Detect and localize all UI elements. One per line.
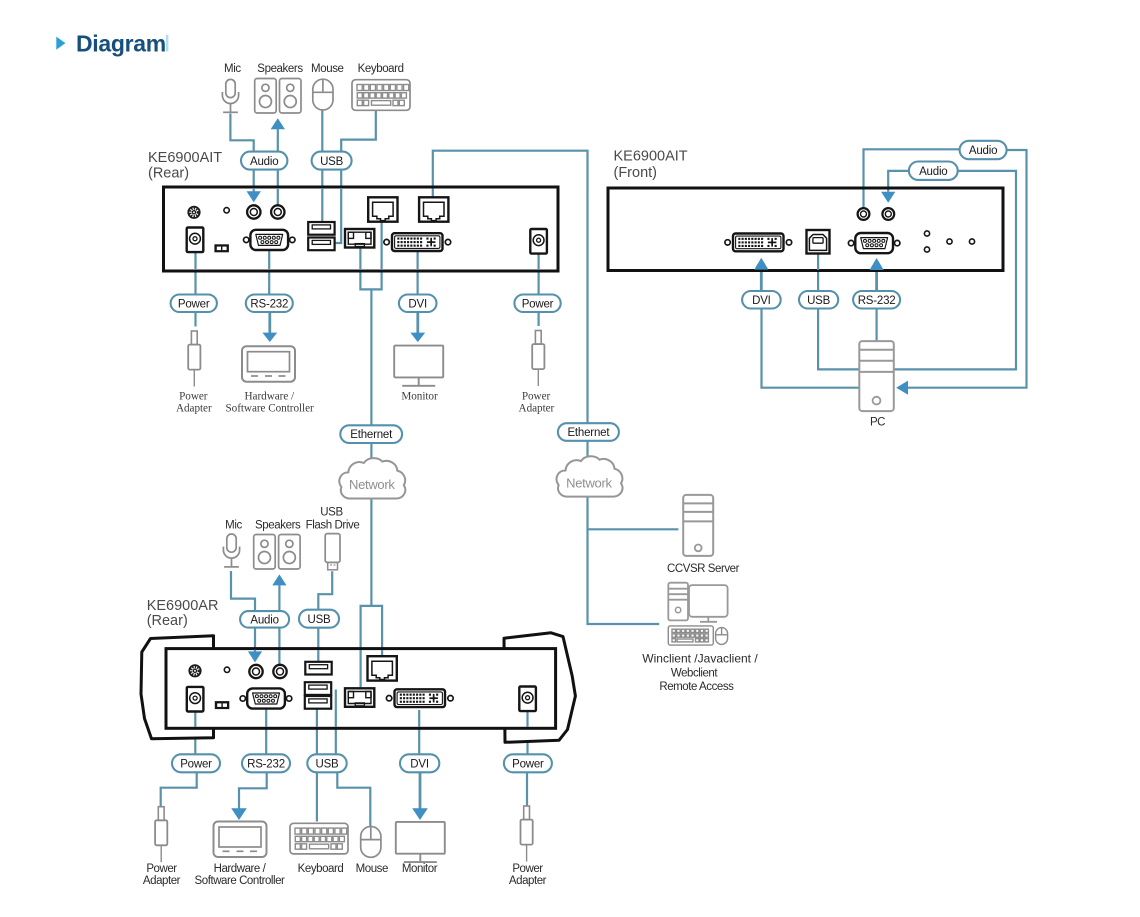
- svg-text:Power: Power: [178, 299, 210, 311]
- svg-text:Power: Power: [512, 758, 544, 770]
- svg-text:Ethernet: Ethernet: [567, 427, 610, 439]
- svg-text:RS-232: RS-232: [250, 299, 288, 311]
- svg-text:Mic: Mic: [224, 63, 241, 75]
- svg-text:(Rear): (Rear): [147, 613, 188, 629]
- svg-text:Mouse: Mouse: [356, 863, 388, 875]
- svg-text:RS-232: RS-232: [247, 758, 285, 770]
- svg-text:Software Controller: Software Controller: [195, 875, 285, 887]
- svg-text:USB: USB: [315, 758, 339, 770]
- svg-text:Adapter: Adapter: [509, 875, 547, 887]
- svg-text:PC: PC: [870, 417, 885, 429]
- svg-text:Speakers: Speakers: [257, 63, 303, 75]
- svg-text:Mouse: Mouse: [311, 63, 344, 75]
- svg-text:CCVSR Server: CCVSR Server: [667, 563, 740, 575]
- svg-text:Audio: Audio: [969, 145, 997, 157]
- svg-text:Network: Network: [566, 476, 612, 491]
- svg-text:(Front): (Front): [614, 165, 658, 181]
- svg-text:USB: USB: [807, 295, 831, 307]
- svg-text:Power: Power: [179, 391, 208, 403]
- svg-text:Audio: Audio: [250, 156, 278, 168]
- svg-text:Speakers: Speakers: [255, 520, 301, 532]
- svg-text:Power: Power: [512, 863, 543, 875]
- svg-text:Hardware /: Hardware /: [214, 863, 267, 875]
- svg-text:Power: Power: [180, 758, 212, 770]
- svg-text:Monitor: Monitor: [402, 863, 438, 875]
- svg-text:Audio: Audio: [919, 166, 947, 178]
- svg-text:Power: Power: [146, 863, 177, 875]
- svg-text:RS-232: RS-232: [858, 295, 896, 307]
- svg-text:Software Controller: Software Controller: [225, 402, 314, 414]
- svg-text:USB: USB: [320, 507, 343, 519]
- svg-text:Monitor: Monitor: [401, 391, 438, 403]
- svg-text:DVI: DVI: [408, 299, 427, 311]
- svg-text:DVI: DVI: [752, 295, 771, 307]
- svg-text:DVI: DVI: [410, 758, 429, 770]
- svg-text:Audio: Audio: [250, 615, 278, 627]
- svg-text:USB: USB: [320, 156, 344, 168]
- svg-text:Network: Network: [349, 477, 395, 492]
- svg-text:Keyboard: Keyboard: [298, 863, 344, 875]
- svg-text:Hardware /: Hardware /: [245, 391, 295, 403]
- svg-text:KE6900AIT: KE6900AIT: [614, 149, 688, 165]
- svg-text:Power: Power: [522, 391, 551, 403]
- svg-text:Adapter: Adapter: [143, 875, 181, 887]
- svg-text:Ethernet: Ethernet: [350, 429, 393, 441]
- svg-text:KE6900AIT: KE6900AIT: [148, 150, 222, 166]
- svg-text:Diagram: Diagram: [76, 30, 166, 56]
- svg-text:Keyboard: Keyboard: [358, 63, 404, 75]
- svg-text:USB: USB: [307, 614, 331, 626]
- svg-text:Power: Power: [522, 299, 554, 311]
- svg-text:Remote Access: Remote Access: [659, 681, 734, 693]
- svg-text:Adapter: Adapter: [176, 402, 212, 414]
- svg-text:Adapter: Adapter: [519, 402, 555, 414]
- svg-text:Webclient: Webclient: [671, 668, 718, 680]
- svg-text:Mic: Mic: [225, 520, 242, 532]
- svg-text:Flash Drive: Flash Drive: [306, 520, 360, 532]
- svg-text:(Rear): (Rear): [148, 166, 189, 182]
- svg-text:KE6900AR: KE6900AR: [147, 598, 219, 614]
- svg-text:Winclient /Javaclient /: Winclient /Javaclient /: [642, 652, 758, 666]
